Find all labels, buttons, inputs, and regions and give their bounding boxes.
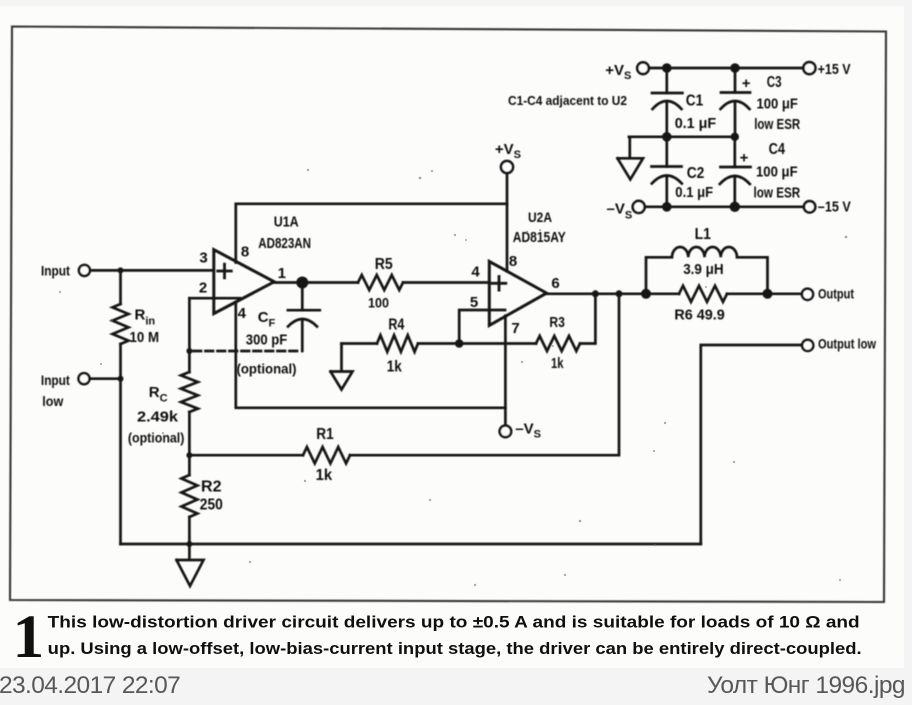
wire R3 right lead up to output [580,294,595,344]
svg-text:+15 V: +15 V [818,61,851,78]
node C1 mid [662,132,672,142]
svg-text:(optional): (optional) [237,362,297,377]
label C3 100uF low ESR [742,74,801,133]
wire Rin top lead [119,270,122,304]
terminal Input [79,265,90,276]
label C1-C4 adjacent to U2 [508,93,627,108]
svg-text:This low-distortion driver cir: This low-distortion driver circuit deliv… [48,614,860,632]
terminal Input low [79,373,90,384]
svg-text:1: 1 [278,265,286,282]
svg-text:8: 8 [241,243,249,260]
wire U1A output to R5 [274,281,358,284]
svg-text:C4: C4 [769,141,786,158]
svg-text:2.49k: 2.49k [137,409,179,426]
wire U2 pin5 stub [459,310,505,344]
node C3 mid [731,133,739,141]
wire R1 feedback [189,294,619,455]
resistor R1 1k [303,447,350,463]
wire R4 left lead and ground drop [342,342,378,345]
svg-text:4: 4 [471,264,480,281]
svg-text:up. Using a low-offset, low-bi: up. Using a low-offset, low-bias-current… [48,640,862,658]
wire input to U1A pin3 [90,269,212,272]
svg-text:3: 3 [199,249,207,266]
node C3 top [730,63,740,73]
svg-text:R4: R4 [388,317,404,334]
terminal +15V [803,62,815,74]
label Input low [41,372,70,409]
terminal Output low [802,340,813,351]
wire U2 pin7 to -Vs [504,316,507,426]
wire +Vs down to U2 pin8 [506,173,509,271]
node input/Rin junction [118,267,124,273]
pin 4 U1A [238,305,247,322]
svg-text:R1: R1 [316,426,334,443]
label R6 49.9 [674,307,724,324]
svg-text:5: 5 [470,294,478,311]
svg-text:low: low [42,393,63,409]
pin 6 U2A [551,275,559,292]
label L1 3.9uH [683,226,723,278]
svg-text:+: + [740,150,749,167]
label U2A AD815AY [513,209,566,246]
svg-text:1: 1 [13,604,45,671]
footer filename text [707,672,905,699]
wire R5 to U2 pin4 [403,281,490,284]
pin 5 U2A [470,294,478,311]
resistor R4 1k [377,335,418,352]
node R4/R3 junction [455,339,464,348]
resistor R6 49.9 [679,286,727,302]
resistor R3 1k [536,336,580,351]
svg-text:C1-C4 adjacent to U2: C1-C4 adjacent to U2 [508,93,627,108]
node L1 left [641,289,651,299]
wire dashed CF to feedback node [189,350,297,353]
resistor RC 2.49k [181,372,198,412]
ground rails [618,137,644,180]
wire U2 output line [546,292,802,295]
label Output low [818,336,876,352]
svg-text:2: 2 [199,280,207,297]
capacitor C4 100uF [720,137,751,207]
caption figure number 1 [13,604,45,671]
svg-text:R2: R2 [201,479,222,496]
svg-text:6: 6 [551,275,559,292]
svg-text:8: 8 [509,253,517,270]
svg-text:C2: C2 [687,165,705,182]
terminal +Vs rail [637,62,649,74]
node R1 tap [186,452,192,458]
svg-text:1k: 1k [316,467,333,484]
pin 1 U1A [278,265,286,282]
svg-text:100: 100 [368,295,389,311]
svg-text:AD815AY: AD815AY [513,229,566,246]
svg-text:1k: 1k [387,359,402,376]
wire -Vs rail [645,205,804,208]
svg-text:AD823AN: AD823AN [258,235,311,252]
pin 8 U2A [509,253,517,270]
label Rin [130,307,160,347]
inductor L1 3.9uH [646,247,768,294]
terminal -Vs U2 [500,426,512,438]
wire input low [90,377,121,380]
wire U1A pin8 to +Vs rail [236,204,507,263]
label Input [41,263,70,279]
svg-text:250: 250 [200,497,223,514]
node input-low junction [118,376,124,382]
capacitor C3 100uF [721,68,751,137]
wire output low return [701,345,802,544]
node R1 feedback tap [616,290,623,297]
node R2/ground junction [186,541,192,547]
pin 2 U1A [199,280,207,297]
svg-text:0.1 μF: 0.1 μF [675,115,717,132]
scan speckles [59,169,847,586]
label R5 100 [368,256,393,311]
terminal -Vs rail [633,201,645,213]
svg-text:4: 4 [238,305,247,322]
svg-text:100 μF: 100 μF [756,164,798,181]
label CF 300pF optional [237,309,297,377]
label +15 V [818,61,851,78]
wire feedback column [188,298,191,372]
svg-text:23.04.2017 22:07: 23.04.2017 22:07 [0,672,180,699]
node R3 feedback tap [592,290,599,297]
svg-text:300 pF: 300 pF [246,332,287,349]
capacitor C1 0.1uF [652,68,682,137]
svg-text:Input: Input [41,263,70,279]
node L1 right [763,289,773,299]
pin 7 U2A [511,320,519,337]
node U1A output / CF [296,277,308,289]
svg-text:C1: C1 [686,93,704,110]
svg-text:U1A: U1A [274,214,299,231]
wire U1A pin2 [189,297,240,300]
label -Vs U2 [515,420,541,440]
label -15 V [818,199,851,216]
label R1 1k [316,426,334,484]
ground main [177,544,204,586]
resistor R5 100 [358,275,403,290]
op-amp U1A triangle [214,250,274,314]
resistor R2 250 [181,475,197,517]
svg-text:C3: C3 [767,74,782,91]
svg-text:(optional): (optional) [128,431,184,446]
caption line 2 [48,640,862,658]
capacitor C2 0.1uF [652,137,682,207]
wire R2 bottom [188,517,191,544]
svg-text:Уолт Юнг 1996.jpg: Уолт Юнг 1996.jpg [707,672,905,699]
label C1 0.1uF [675,93,717,133]
svg-text:low ESR: low ESR [754,116,800,133]
pin 8 U1A [241,243,249,260]
label R3 1k [549,314,565,372]
label U1A AD823AN [258,214,311,253]
terminal Output [802,289,813,300]
wire Rin bottom to ground line [119,344,122,544]
svg-text:100 μF: 100 μF [757,96,798,113]
wire ground bus [121,543,701,546]
svg-text:U2A: U2A [528,209,552,225]
svg-text:Input: Input [41,372,70,388]
node dashed tap [186,348,192,354]
label R4 1k [387,317,405,376]
svg-text:1k: 1k [551,355,564,372]
label Output [818,286,854,302]
svg-text:R6 49.9: R6 49.9 [674,307,724,324]
wire +Vs rail [649,67,804,70]
svg-text:low ESR: low ESR [754,185,801,202]
label RC 2.49k optional [128,384,184,446]
svg-text:L1: L1 [695,226,712,243]
node C2 bottom [662,202,672,212]
node C1 top [662,63,672,73]
caption line 1 [48,614,860,632]
capacitor CF 300pF [288,283,320,352]
svg-text:–15 V: –15 V [818,199,851,216]
label +Vs U2 [495,141,521,161]
svg-text:Output low: Output low [818,336,876,352]
svg-text:R5: R5 [375,256,393,273]
op-amp U2A triangle [489,261,546,325]
terminal -15V [804,201,815,212]
label +Vs rail [605,62,631,82]
wire U1A pin4 to -Vs rail [236,302,506,408]
svg-text:0.1 μF: 0.1 μF [675,184,713,201]
svg-text:R3: R3 [549,314,565,331]
node C4 bottom [730,202,740,212]
svg-text:7: 7 [511,320,519,337]
terminal +Vs U2 [501,161,513,173]
wire mid ground rail [629,135,735,138]
label R2 250 [200,479,223,514]
svg-text:Output: Output [818,286,854,302]
ground near R4 [331,344,353,390]
wire RC to R2 [188,412,191,475]
resistor Rin 10M [113,304,129,344]
wire R4 to junction to R3 [418,342,536,345]
label C2 0.1uF [675,165,713,201]
footer date text [0,672,180,699]
svg-text:10 M: 10 M [130,329,160,346]
pin 4 U2A [471,264,480,281]
label -Vs rail [607,201,633,222]
label C4 100uF low ESR [740,141,801,202]
pin 3 U1A [199,249,207,266]
border frame of scanned figure [10,27,886,603]
svg-text:3.9 μH: 3.9 μH [683,261,723,278]
svg-text:+: + [742,75,751,92]
